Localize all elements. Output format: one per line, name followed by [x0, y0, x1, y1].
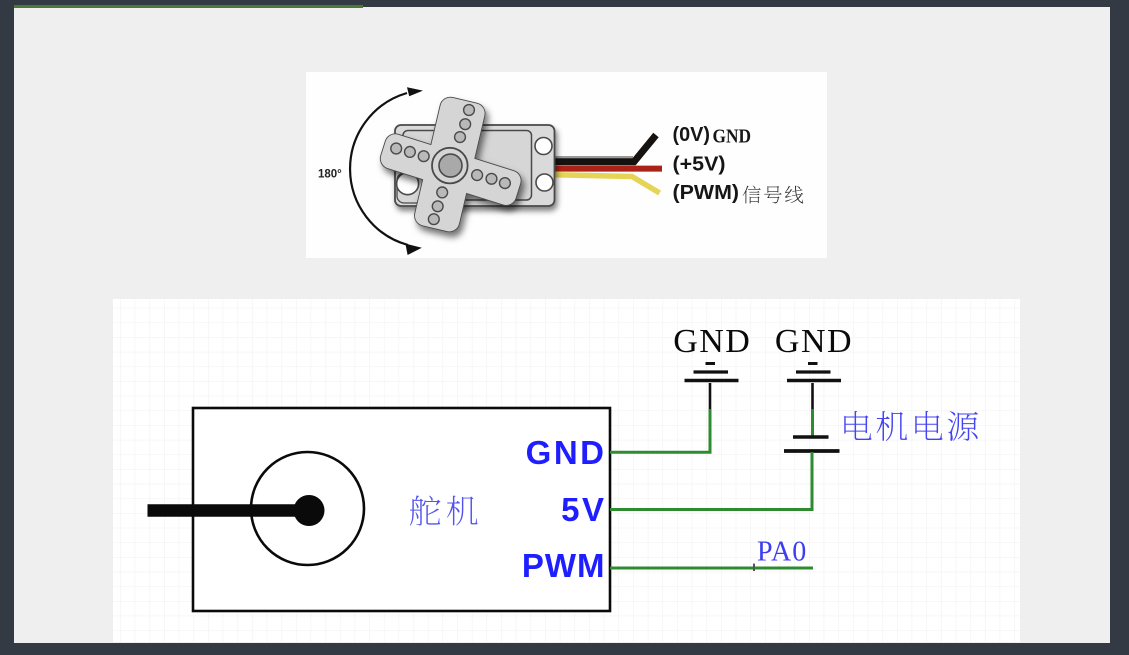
svg-text:GND: GND	[673, 323, 751, 360]
wire GND pin to ground	[610, 409, 710, 452]
svg-text:GND: GND	[713, 125, 752, 147]
servo wire bundle: gray sheath	[554, 156, 633, 158]
svg-text:5V: 5V	[561, 491, 606, 528]
servo shaft circle	[251, 452, 364, 565]
horn holes	[391, 105, 511, 225]
servo wire black (0V GND)	[554, 135, 656, 162]
svg-text:(0V): (0V)	[673, 124, 711, 146]
servo wire red (+5V)	[554, 166, 662, 172]
wire battery to 5V pin	[610, 452, 812, 510]
svg-text:(PWM): (PWM)	[673, 182, 740, 204]
horn hub ring	[432, 148, 468, 184]
svg-text:GND: GND	[775, 323, 853, 360]
servo wire yellow (PWM)	[554, 175, 660, 193]
svg-text:PWM: PWM	[522, 547, 606, 584]
svg-text:GND: GND	[526, 434, 607, 471]
svg-text:PA0: PA0	[757, 537, 807, 568]
shaft	[148, 504, 310, 517]
servo body	[395, 125, 555, 206]
rotation arc arrow 180deg	[350, 87, 423, 255]
net tick PA0	[753, 564, 755, 571]
battery cell plate long	[784, 449, 840, 453]
ground symbol 2 bars	[787, 364, 841, 381]
servo horn cross	[378, 96, 523, 234]
label 电机电源	[844, 411, 871, 440]
servo block 舵机	[193, 408, 610, 611]
ground symbol 1 stem	[709, 383, 712, 409]
servo face plate	[403, 131, 532, 201]
horn hub center	[439, 154, 462, 177]
ground symbol 1 bars	[685, 364, 739, 381]
battery cell plate short	[793, 435, 829, 438]
mounting hole bottom-left	[397, 173, 419, 195]
label 舵机	[410, 495, 441, 525]
wire PWM pin to PA0	[610, 567, 813, 570]
svg-text:(+5V): (+5V)	[673, 154, 726, 176]
svg-text:180°: 180°	[318, 169, 342, 181]
ground symbol 2 stem	[811, 383, 814, 409]
mounting hole right-bottom	[536, 174, 553, 191]
mounting tab bottom-left	[397, 173, 423, 203]
shaft hub dot	[294, 495, 325, 526]
wire ground2 to battery	[811, 409, 814, 436]
mounting hole right-top	[535, 138, 552, 155]
